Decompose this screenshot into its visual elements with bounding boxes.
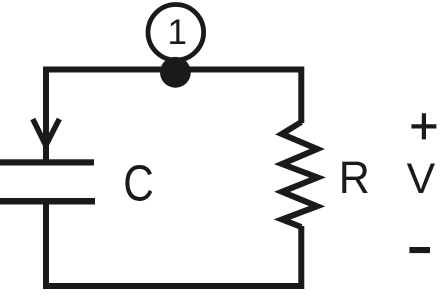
svg-text:C: C <box>123 153 154 211</box>
svg-text:R: R <box>339 153 370 203</box>
wire top rail: left wire up, across top, right wire down to resistor <box>46 70 301 164</box>
svg-text:V: V <box>407 155 436 203</box>
capacitor C bottom plate <box>0 198 95 205</box>
resistor R zigzag <box>282 122 318 227</box>
junction dot <box>160 57 191 88</box>
voltage polarity minus <box>409 247 430 253</box>
current direction arrow on left wire <box>33 119 60 146</box>
node 1 circle <box>148 5 204 61</box>
wire bottom rail: right wire below resistor, across bottom, left wire up to capacitor <box>46 200 301 286</box>
voltage polarity plus <box>411 113 436 139</box>
svg-text:1: 1 <box>168 13 187 52</box>
capacitor C top plate <box>0 159 94 165</box>
